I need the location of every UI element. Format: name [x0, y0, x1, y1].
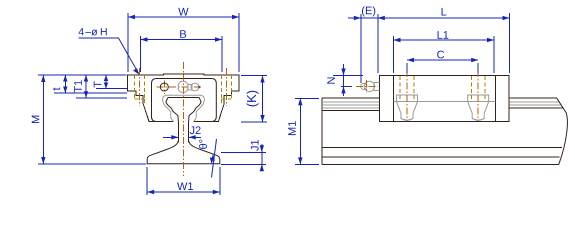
- rail head dark profile: [166, 98, 201, 122]
- dimension M: [42, 75, 44, 164]
- block cavity gray bell: [163, 95, 205, 121]
- block outer profile: [128, 74, 240, 122]
- dimension W1: [147, 167, 220, 195]
- extension line rail bottom left: [38, 163, 146, 165]
- dimension B: [141, 36, 223, 72]
- (E) extension lines: [361, 14, 378, 83]
- extension line T level: [96, 88, 127, 90]
- horizontal centerline through holes: [157, 86, 204, 88]
- rail bolt boss left: [397, 95, 418, 120]
- label 4-oH with leader: [79, 28, 107, 35]
- side hole circle: [160, 83, 168, 91]
- dimension L1: [394, 36, 495, 73]
- dimension T1: [85, 75, 87, 98]
- rail left end: [321, 98, 323, 164]
- bolt hole hidden left: [135, 75, 145, 103]
- rail top left segment: [322, 98, 380, 110]
- angle theta leader: [212, 139, 217, 178]
- extension line top left: [38, 74, 127, 76]
- dimension N: [333, 64, 363, 96]
- bolt hole hidden right: [222, 75, 232, 103]
- block body rounded rect: [152, 79, 217, 122]
- dimension W: [128, 13, 239, 72]
- rail base lines: [322, 147, 562, 164]
- dimension J1: [221, 144, 266, 171]
- dimension t: [64, 75, 66, 93]
- dimension M1: [295, 98, 319, 164]
- main vertical centerline: [183, 62, 185, 176]
- dimension C: [407, 60, 478, 73]
- extension line T1 level: [76, 97, 127, 99]
- hidden bolt hole lines left: [400, 76, 414, 102]
- L extension right: [509, 13, 511, 73]
- rail top right segment: [509, 98, 563, 108]
- grease nipple section circles: [178, 81, 188, 92]
- dimension T: [105, 75, 107, 89]
- side hole centerline vertical: [163, 81, 165, 95]
- hidden bolt hole lines right: [471, 76, 485, 102]
- block rect: [380, 76, 510, 122]
- dimension (E) and L line: [348, 17, 510, 19]
- nipple centerlines: [356, 80, 378, 93]
- rail web: [178, 122, 188, 143]
- dimension J2: [163, 136, 201, 138]
- bolt hole centerline right: [226, 68, 228, 106]
- rail bolt boss right: [468, 95, 489, 120]
- rail base: [147, 141, 220, 164]
- extension line t level: [54, 92, 127, 94]
- dimension (K): [241, 76, 267, 123]
- grease nipple side: [361, 83, 367, 89]
- end seal lines: [394, 76, 496, 122]
- bolt centerline right: [477, 70, 479, 121]
- bolt hole centerline left: [139, 68, 141, 106]
- rail right end curve: [557, 98, 568, 164]
- bolt centerline left: [406, 70, 408, 121]
- rail top inside block: [394, 101, 496, 103]
